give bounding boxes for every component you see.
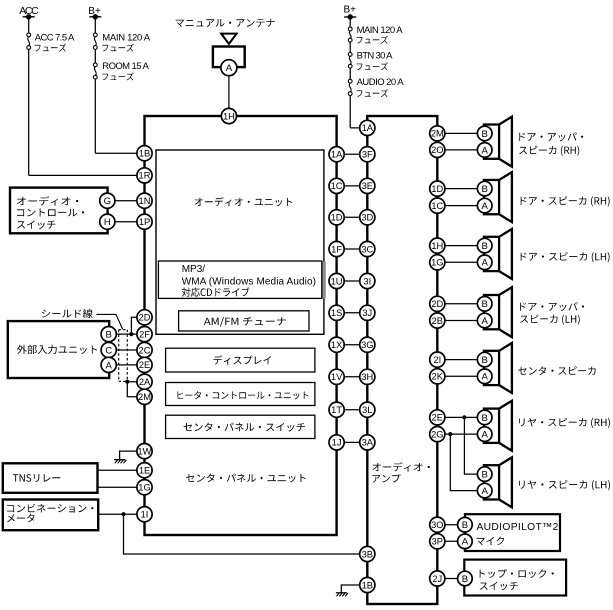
connector 1G amp right — [430, 255, 445, 270]
connector 1I left column — [137, 507, 152, 522]
svg-text:1B: 1B — [362, 580, 373, 590]
junction dot rear A — [448, 432, 452, 436]
speaker door speaker LH — [484, 229, 512, 279]
svg-text:AUDIOPILOT™2: AUDIOPILOT™2 — [477, 522, 559, 533]
connector 1B amp — [360, 577, 375, 592]
svg-text:1V: 1V — [331, 372, 343, 382]
label combination meter — [7, 504, 93, 513]
connector 2D amp right — [430, 296, 445, 311]
svg-text:AUDIO 20 A: AUDIO 20 A — [357, 77, 405, 88]
svg-text:2I: 2I — [433, 355, 441, 365]
svg-text:3F: 3F — [362, 150, 373, 160]
fuse MAIN 120 A left — [93, 33, 97, 49]
wire B+ left to 1B — [95, 152, 144, 154]
svg-text:B: B — [105, 330, 111, 341]
connector 2O amp right — [430, 142, 445, 157]
connector B rear speaker RH — [477, 410, 492, 425]
connector A mic — [458, 534, 473, 549]
svg-text:1S: 1S — [331, 308, 342, 318]
connector 2C left column — [137, 342, 152, 357]
connector 2K amp right — [430, 369, 445, 384]
svg-text:1U: 1U — [331, 276, 343, 286]
svg-text:B: B — [481, 470, 487, 481]
svg-text:1C: 1C — [331, 181, 343, 191]
svg-text:2O: 2O — [431, 145, 443, 155]
wire 2J to top lock switch — [437, 578, 465, 580]
external input unit box — [8, 321, 109, 378]
svg-text:C: C — [105, 345, 112, 356]
svg-text:ACC: ACC — [19, 5, 39, 17]
speaker door upper speaker RH — [484, 117, 512, 167]
connector 1R left column — [137, 168, 152, 183]
svg-text:2D: 2D — [431, 299, 443, 309]
fuse AUDIO 20 A — [348, 79, 352, 95]
connector B door upper speaker RH — [477, 126, 492, 141]
node ACC power terminal — [23, 16, 35, 18]
label rear speaker RH — [519, 418, 610, 428]
label fuse ACC fyuzu — [35, 44, 66, 52]
svg-text:3D: 3D — [361, 213, 373, 223]
center panel unit box — [145, 116, 337, 535]
svg-text:A: A — [481, 316, 488, 327]
label door speaker LH — [521, 252, 610, 262]
svg-text:B+: B+ — [88, 6, 101, 17]
label audio unit — [195, 197, 293, 206]
svg-text:1J: 1J — [332, 438, 342, 448]
svg-text:3P: 3P — [432, 537, 443, 547]
svg-text:1C: 1C — [431, 201, 443, 211]
connector 1X — [329, 337, 344, 352]
svg-text:MAIN 120 A: MAIN 120 A — [357, 25, 404, 36]
connector A rear speaker LH — [477, 483, 492, 498]
wire C to 2C — [109, 349, 145, 351]
svg-text:MAIN 120 A: MAIN 120 A — [102, 32, 150, 43]
wire 1U to 3I — [337, 280, 368, 282]
connector B door speaker LH — [477, 238, 492, 253]
label door speaker RH — [521, 196, 610, 206]
junction dot shield top — [129, 332, 133, 336]
label top lock switch — [480, 569, 554, 578]
wire 2D to door upper speaker LH B — [437, 303, 484, 305]
connector 3F — [360, 147, 375, 162]
svg-text:2M: 2M — [431, 129, 444, 139]
wire B to 2F — [109, 333, 145, 335]
label fuse BTN fyuzu — [357, 62, 388, 70]
connector 1G left column — [137, 480, 152, 495]
connector 2I amp right — [430, 352, 445, 367]
wire amp 1B to ground — [341, 585, 367, 593]
svg-text:A: A — [481, 145, 488, 156]
connector 1H amp right — [430, 238, 445, 253]
svg-text:1D: 1D — [331, 213, 343, 223]
svg-text:2A: 2A — [139, 377, 151, 387]
connector A door upper speaker RH — [477, 143, 492, 158]
svg-text:1D: 1D — [431, 184, 443, 194]
svg-text:A: A — [481, 372, 488, 383]
svg-text:1A: 1A — [331, 150, 343, 160]
connector 3C — [360, 241, 375, 256]
MP3 CD drive box — [158, 261, 321, 298]
wire 2M to shield — [127, 382, 144, 397]
wire 1T to 3L — [337, 409, 368, 411]
svg-text:A: A — [462, 537, 469, 548]
connector H — [100, 214, 115, 229]
connector G — [100, 193, 115, 208]
wire 1V to 3H — [337, 376, 368, 378]
connector A center speaker — [477, 369, 492, 384]
connector 3G — [360, 337, 375, 352]
label fuse MAIN fyuzu right — [357, 36, 388, 44]
svg-text:3L: 3L — [362, 405, 372, 415]
connector 3A — [360, 435, 375, 450]
svg-text:3B: 3B — [362, 549, 373, 559]
svg-text:3I: 3I — [363, 276, 371, 286]
svg-text:3A: 3A — [362, 438, 374, 448]
connector 2E left column — [137, 357, 152, 372]
svg-text:B: B — [481, 129, 487, 140]
label TNS relay — [13, 474, 60, 482]
shield dashed envelope — [118, 330, 120, 382]
heater control unit box — [166, 383, 315, 406]
wire 1C to door speaker RH A — [437, 205, 484, 207]
label audio amp line1 — [372, 462, 430, 471]
label external input unit — [17, 345, 97, 354]
svg-text:1N: 1N — [139, 196, 151, 206]
combination meter box — [3, 500, 98, 531]
wire 1J to 3A — [337, 441, 368, 443]
AM/FM tuner box — [179, 311, 309, 331]
wire rear LH speaker B branch — [464, 417, 484, 474]
wire TNS to 1E — [98, 469, 145, 471]
label fuse ROOM fyuzu — [102, 72, 134, 80]
wire 1D to door speaker RH B — [437, 188, 484, 190]
connector 1H — [221, 108, 236, 123]
ground at 1W — [114, 459, 125, 461]
svg-text:2K: 2K — [432, 372, 444, 382]
svg-text:ROOM 15 A: ROOM 15 A — [102, 61, 149, 72]
label display — [214, 355, 272, 364]
svg-text:A: A — [481, 201, 488, 212]
connector A door upper speaker LH — [477, 313, 492, 328]
wire H to 1P — [107, 221, 144, 223]
svg-text:B: B — [481, 355, 487, 366]
wire A to 2E — [109, 364, 145, 366]
node B+ power terminal right — [344, 16, 356, 18]
connector 1N left column — [137, 193, 152, 208]
wire G to 1N — [107, 200, 144, 202]
wire 2K to center speaker A — [437, 375, 484, 377]
wire 2M to door upper speaker RH B — [437, 132, 484, 134]
fuse MAIN 120 A right — [348, 27, 352, 42]
wire 1F to 3C — [337, 248, 368, 250]
connector 1D — [329, 210, 344, 225]
wire 2E to rear speaker RH B — [437, 416, 484, 418]
svg-text:1H: 1H — [223, 111, 235, 121]
connector 2A left column — [137, 374, 152, 389]
wire B+ left vertical feed — [94, 17, 96, 33]
wire 2O to door upper speaker RH A — [437, 149, 484, 151]
connector 2F left column — [137, 327, 152, 342]
connector 1C amp right — [430, 198, 445, 213]
svg-text:B: B — [481, 184, 487, 195]
ground at amp 1B — [336, 592, 347, 594]
speaker rear speaker LH — [484, 457, 512, 507]
connector B door speaker RH — [477, 181, 492, 196]
svg-text:3O: 3O — [431, 520, 443, 530]
wire 1X to 3G — [337, 344, 368, 346]
connector 2M left column — [137, 389, 152, 404]
svg-text:ACC 7.5 A: ACC 7.5 A — [35, 32, 75, 43]
connector B center speaker — [477, 352, 492, 367]
speaker center speaker — [484, 343, 512, 393]
svg-text:B: B — [481, 241, 487, 252]
svg-text:3H: 3H — [361, 372, 373, 382]
AUDIOPILOT mic box — [465, 514, 560, 551]
label door upper speaker LH — [520, 302, 584, 311]
wire rear LH speaker A branch — [450, 434, 484, 491]
connector 3J — [360, 305, 375, 320]
connector A door speaker RH — [477, 198, 492, 213]
connector 2D left column — [137, 310, 152, 325]
fuse ACC 7.5 A — [27, 33, 31, 49]
connector 3B — [360, 546, 375, 561]
connector A antenna — [221, 60, 237, 76]
svg-text:1E: 1E — [139, 466, 150, 476]
label audio control switch — [17, 196, 78, 205]
svg-text:B: B — [481, 299, 487, 310]
connector 1S — [329, 305, 344, 320]
svg-text:A: A — [481, 430, 488, 441]
top lock switch box — [464, 560, 566, 596]
connector 3H — [360, 369, 375, 384]
junction dot rear B — [462, 415, 466, 419]
connector 1B left column — [137, 146, 152, 161]
label center panel unit — [186, 474, 306, 483]
wire 2B to door upper speaker LH A — [437, 320, 484, 322]
svg-text:B+: B+ — [344, 4, 357, 15]
svg-text:1X: 1X — [331, 340, 342, 350]
wire B+ right vertical feed — [349, 17, 351, 27]
speaker rear speaker RH — [484, 401, 512, 451]
connector 3O amp right — [430, 517, 445, 532]
svg-text:MP3/: MP3/ — [182, 264, 206, 275]
connector 1W left column — [137, 444, 152, 459]
connector B door upper speaker LH — [477, 297, 492, 312]
svg-text:A: A — [481, 258, 488, 269]
svg-text:G: G — [104, 196, 111, 207]
wire 3P to mic A — [437, 540, 465, 542]
connector 2E amp right — [430, 410, 445, 425]
svg-text:A: A — [226, 63, 233, 74]
label center panel switch — [184, 423, 306, 432]
connector 2J amp right — [430, 571, 445, 586]
svg-text:1R: 1R — [139, 171, 151, 181]
svg-text:2J: 2J — [432, 574, 442, 584]
connector 2B amp right — [430, 313, 445, 328]
wire 2G to rear speaker RH A — [437, 433, 484, 435]
connector A rear speaker RH — [477, 427, 492, 442]
wire ACC to 1R — [29, 174, 145, 176]
connector 3E — [360, 178, 375, 193]
speaker door speaker RH — [484, 172, 512, 222]
wire meter branch to 3B — [124, 514, 368, 554]
junction dot shield bottom — [125, 380, 129, 384]
svg-text:BTN 30 A: BTN 30 A — [357, 50, 394, 61]
wire 1G to door speaker LH A — [437, 261, 484, 263]
label AM/FM tuner — [204, 317, 286, 327]
svg-text:1P: 1P — [139, 217, 150, 227]
label mic — [477, 537, 505, 546]
label manual antenna — [176, 19, 275, 27]
svg-text:3E: 3E — [362, 181, 373, 191]
fuse ROOM 15 A — [93, 63, 97, 79]
connector 3P amp right — [430, 534, 445, 549]
label CD drive — [182, 287, 250, 296]
connector 1D amp right — [430, 181, 445, 196]
svg-text:1G: 1G — [138, 483, 150, 493]
connector 1A amp top — [360, 120, 375, 135]
label heater control unit — [177, 391, 308, 399]
connector B ext input — [101, 327, 116, 342]
connector A door speaker LH — [477, 255, 492, 270]
svg-text:B: B — [481, 413, 487, 424]
fuse BTN 30 A — [348, 53, 352, 69]
wire ACC vertical feed — [28, 17, 30, 33]
label door upper speaker RH — [519, 132, 583, 141]
TNS relay box — [3, 463, 98, 493]
svg-text:1W: 1W — [138, 446, 152, 456]
wire 1A to 3F — [337, 153, 368, 155]
pointer shield wire — [96, 314, 122, 329]
connector 1V — [329, 369, 344, 384]
svg-text:B: B — [462, 574, 468, 585]
wire 1W to ground — [120, 451, 145, 460]
svg-text:3J: 3J — [362, 308, 372, 318]
svg-text:3G: 3G — [361, 340, 373, 350]
connector 3D — [360, 210, 375, 225]
svg-text:2F: 2F — [139, 329, 150, 339]
connector 3L — [360, 402, 375, 417]
connector B rear speaker LH — [477, 467, 492, 482]
connector 1E left column — [137, 463, 152, 478]
svg-text:1B: 1B — [139, 149, 150, 159]
label fuse MAIN fyuzu left — [102, 44, 134, 52]
wire 1D to 3D — [337, 216, 368, 218]
connector 1J — [329, 435, 344, 450]
wire antenna A to 1H — [228, 75, 230, 117]
connector 3I — [360, 273, 375, 288]
connector 2G amp right — [430, 427, 445, 442]
node B+ power terminal left — [89, 16, 101, 18]
svg-text:2D: 2D — [139, 313, 151, 323]
svg-text:A: A — [481, 486, 488, 497]
label center speaker — [518, 366, 595, 375]
svg-text:1T: 1T — [331, 405, 342, 415]
svg-text:2G: 2G — [431, 429, 443, 439]
speaker door upper speaker LH — [484, 287, 512, 337]
junction dot combination meter — [121, 512, 125, 516]
svg-text:1G: 1G — [431, 258, 443, 268]
label fuse AUDIO fyuzu — [357, 89, 388, 97]
svg-text:1A: 1A — [362, 123, 374, 133]
wire 2I to center speaker B — [437, 359, 484, 361]
audio control switch box — [10, 188, 108, 234]
audio amp box — [367, 116, 437, 604]
connector 1A — [329, 147, 344, 162]
wire 1S to 3J — [337, 312, 368, 314]
svg-text:B: B — [462, 520, 468, 531]
svg-text:2C: 2C — [139, 345, 151, 355]
wire 2A to shield — [127, 381, 144, 383]
display box — [166, 348, 315, 372]
MP3 CD drive box shadow — [322, 262, 326, 299]
connector A ext input — [101, 357, 116, 372]
connector B mic — [458, 517, 473, 532]
wire 1H to door speaker LH B — [437, 245, 484, 247]
wire 2D to shield — [131, 317, 144, 334]
connector 2M amp right — [430, 126, 445, 141]
connector 1T — [329, 402, 344, 417]
label rear speaker LH — [519, 480, 610, 490]
label shield wire — [42, 309, 93, 318]
svg-text:2B: 2B — [432, 316, 443, 326]
svg-text:2E: 2E — [139, 360, 150, 370]
wire 1C to 3E — [337, 185, 368, 187]
svg-text:2E: 2E — [432, 413, 443, 423]
svg-text:H: H — [104, 217, 111, 228]
center panel switch box — [166, 415, 315, 438]
antenna symbol — [221, 34, 236, 44]
audio unit box — [156, 150, 324, 334]
connector C ext input — [101, 342, 116, 357]
connector B top lock — [458, 571, 473, 586]
svg-text:3C: 3C — [361, 244, 373, 254]
svg-text:1F: 1F — [331, 244, 342, 254]
wire TNS to 1G — [98, 486, 145, 488]
connector 1F — [329, 241, 344, 256]
svg-text:A: A — [105, 360, 112, 371]
svg-text:2M: 2M — [138, 392, 151, 402]
connector 1C — [329, 178, 344, 193]
connector 1P left column — [137, 214, 152, 229]
wire 3O to mic B — [437, 524, 465, 526]
svg-text:WMA (Windows Media Audio): WMA (Windows Media Audio) — [182, 276, 316, 287]
svg-text:1I: 1I — [141, 510, 149, 520]
connector 1U — [329, 273, 344, 288]
svg-text:1H: 1H — [431, 241, 443, 251]
label audio amp line2 — [372, 474, 400, 483]
wire combination meter to 1I — [98, 513, 144, 515]
wire B+ right to amp 1A — [350, 127, 367, 129]
